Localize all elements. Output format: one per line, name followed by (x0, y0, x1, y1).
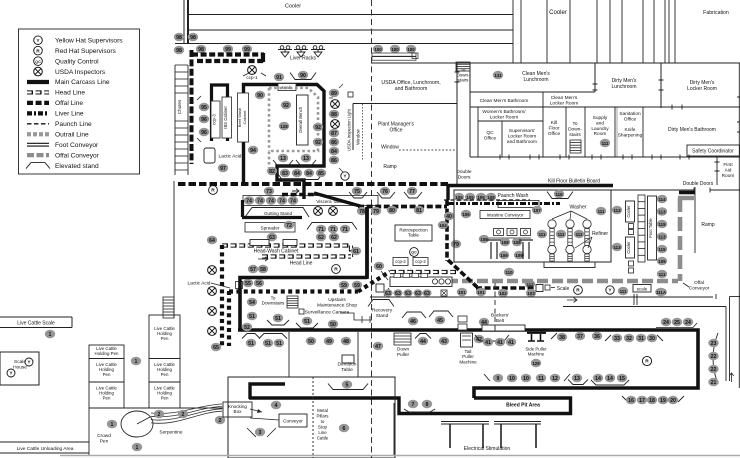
offal line long horizontal (178, 182, 450, 186)
svg-text:USDA Inspection Light: USDA Inspection Light (347, 108, 352, 151)
svg-text:Main Carcass Line: Main Carcass Line (55, 79, 110, 86)
svg-text:86: 86 (331, 140, 337, 146)
svg-text:Upstairs: Upstairs (328, 297, 346, 303)
svg-text:Office: Office (624, 116, 637, 122)
svg-text:111: 111 (576, 232, 583, 237)
circles 16-20 row (622, 396, 684, 402)
svg-text:61: 61 (353, 249, 359, 255)
svg-text:41: 41 (485, 340, 491, 346)
svg-text:Window: Window (356, 128, 361, 144)
svg-text:12: 12 (552, 376, 558, 382)
svg-text:65: 65 (213, 345, 219, 351)
svg-text:Ramp: Ramp (383, 164, 397, 170)
svg-text:71: 71 (318, 227, 324, 233)
svg-text:and Bathroom: and Bathroom (507, 139, 537, 145)
circles 57/58 (248, 265, 258, 274)
svg-text:Double Doors: Double Doors (683, 181, 714, 187)
main carcass line: upstairs room loop (240, 207, 367, 330)
svg-text:88: 88 (331, 112, 337, 118)
circles upstairs (247, 298, 257, 307)
circle 1 markers (131, 357, 141, 366)
svg-text:Down-: Down- (568, 126, 582, 132)
first aid room (716, 157, 718, 185)
svg-text:79: 79 (373, 209, 379, 215)
legend: quality control (34, 57, 43, 66)
svg-text:Cooler: Cooler (626, 241, 631, 254)
svg-text:Outrail Line: Outrail Line (55, 131, 89, 138)
svg-text:Liver Racks: Liver Racks (290, 56, 317, 62)
svg-text:Kill Floor Bulletin Board: Kill Floor Bulletin Board (548, 179, 600, 185)
svg-text:Cattle: Cattle (317, 436, 329, 441)
down puller (394, 333, 411, 345)
svg-text:Yellow Hat Supervisors: Yellow Hat Supervisors (55, 37, 123, 44)
kill floor room walls (454, 190, 611, 262)
svg-text:105: 105 (466, 195, 474, 200)
circles 100 and table top-center (373, 45, 383, 54)
svg-text:22: 22 (711, 367, 717, 373)
svg-text:Clean Men's Bathroom: Clean Men's Bathroom (480, 98, 529, 104)
svg-text:107: 107 (533, 208, 541, 213)
head wash cabinet boxes on line (250, 240, 269, 246)
main carcass line: ibs cabinet U-loop (212, 85, 228, 141)
circle 72 (284, 221, 294, 230)
svg-text:76: 76 (382, 189, 388, 195)
svg-text:Fabrication: Fabrication (703, 10, 729, 16)
svg-text:5: 5 (346, 382, 349, 388)
svg-text:74: 74 (279, 198, 285, 204)
serpentine chute curves (151, 404, 222, 414)
svg-text:Machine: Machine (528, 352, 545, 357)
circle 90 with stand (290, 73, 316, 80)
svg-text:89: 89 (331, 91, 337, 97)
svg-text:17: 17 (639, 398, 645, 404)
svg-text:Dirty Men's Bathroom: Dirty Men's Bathroom (668, 127, 716, 133)
conveyor ladder strip (638, 195, 645, 262)
svg-text:Paunch Wash: Paunch Wash (498, 193, 529, 199)
svg-text:Quality Control: Quality Control (55, 58, 99, 65)
svg-text:6: 6 (343, 426, 346, 432)
svg-text:Box: Box (234, 409, 243, 414)
svg-text:Live Cattle Scale: Live Cattle Scale (17, 321, 55, 327)
svg-text:Locker Room: Locker Room (687, 86, 717, 92)
svg-text:51: 51 (265, 341, 271, 347)
svg-text:Spreader: Spreader (261, 226, 280, 231)
circles 98 top-left (174, 33, 184, 42)
liver line horizontal y206 (358, 205, 447, 209)
viscera lower table (390, 277, 452, 287)
svg-text:44: 44 (420, 339, 426, 345)
svg-text:Clean Men's: Clean Men's (551, 95, 578, 101)
svg-text:131: 131 (494, 73, 502, 78)
svg-text:10: 10 (509, 376, 515, 382)
svg-text:Cooler: Cooler (285, 4, 301, 10)
T stands (487, 240, 501, 259)
svg-text:Stand: Stand (376, 313, 389, 319)
svg-text:Doors: Doors (458, 174, 471, 180)
svg-text:14: 14 (595, 376, 601, 382)
svg-text:59: 59 (341, 283, 347, 289)
svg-text:Office: Office (548, 131, 561, 137)
svg-text:110: 110 (505, 270, 513, 275)
svg-text:Ramp: Ramp (701, 222, 715, 228)
svg-text:Elevated stand: Elevated stand (55, 163, 99, 170)
svg-text:96: 96 (201, 130, 207, 136)
svg-text:113: 113 (658, 209, 666, 214)
svg-text:First: First (723, 162, 733, 168)
svg-text:55: 55 (245, 281, 251, 287)
legend: outrail line (27, 132, 49, 136)
circle 61 (351, 247, 361, 256)
svg-text:Recovery: Recovery (372, 308, 393, 314)
svg-text:23: 23 (711, 341, 717, 347)
svg-text:Stop: Stop (318, 425, 328, 430)
circles R Y scale row (574, 286, 583, 295)
svg-text:Electrical Stimulation: Electrical Stimulation (464, 446, 511, 452)
svg-text:64: 64 (209, 238, 215, 244)
svg-text:R: R (211, 188, 215, 194)
svg-text:Offal Line: Offal Line (55, 100, 83, 107)
legend: yellow hat supervisors (34, 36, 43, 45)
svg-text:9: 9 (497, 376, 500, 382)
svg-text:111: 111 (659, 272, 666, 277)
svg-text:49: 49 (326, 339, 332, 345)
svg-text:111: 111 (558, 232, 565, 237)
tiny circles under table (383, 289, 392, 297)
svg-text:1: 1 (49, 332, 52, 338)
svg-text:99: 99 (225, 47, 231, 53)
legend: paunch line (27, 123, 49, 125)
svg-text:2: 2 (158, 412, 161, 418)
svg-text:scale: scale (637, 286, 648, 291)
svg-text:90: 90 (257, 93, 263, 99)
svg-text:Sanitation: Sanitation (619, 111, 641, 117)
svg-text:Supervisors': Supervisors' (509, 128, 535, 134)
bottom gray line (60, 455, 740, 457)
svg-text:1: 1 (135, 359, 138, 365)
svg-text:92: 92 (315, 125, 321, 131)
svg-text:Gutting Stand: Gutting Stand (264, 211, 293, 216)
svg-text:87: 87 (331, 131, 337, 137)
svg-text:Safety Coordinator: Safety Coordinator (692, 149, 734, 155)
side puller machine (527, 332, 546, 334)
svg-text:33: 33 (614, 336, 620, 342)
svg-text:Table: Table (341, 367, 353, 373)
conveyor box (279, 414, 307, 427)
legend: offal line (27, 101, 49, 105)
svg-text:Scale: Scale (14, 359, 26, 365)
svg-text:40: 40 (446, 214, 452, 220)
svg-text:94: 94 (250, 148, 256, 154)
svg-text:84: 84 (294, 171, 300, 177)
serpentine crowd gate (121, 411, 153, 437)
svg-text:Belt: Belt (496, 318, 505, 324)
scale label small (545, 285, 550, 290)
circles 59/59 (339, 281, 349, 290)
svg-text:85: 85 (318, 171, 324, 177)
circles 2 (154, 410, 164, 419)
svg-text:43: 43 (441, 339, 447, 345)
circle 94 (248, 146, 258, 155)
foot table (648, 196, 657, 260)
svg-text:98: 98 (176, 35, 182, 41)
svg-text:Window: Window (381, 145, 399, 151)
thin wall right of kill floor (694, 187, 696, 253)
svg-text:97: 97 (220, 166, 226, 172)
circle 40 (444, 212, 454, 221)
circles 7/8 (404, 409, 435, 412)
circles 95/96/96 (199, 103, 209, 112)
circle 110 (504, 268, 514, 277)
svg-text:USDA Inspectors: USDA Inspectors (55, 69, 106, 76)
svg-text:36: 36 (594, 334, 600, 340)
svg-text:13: 13 (303, 156, 309, 162)
svg-text:QC: QC (411, 251, 417, 255)
svg-text:25: 25 (674, 320, 680, 326)
svg-text:Sharpening: Sharpening (618, 132, 643, 138)
svg-text:Head Line: Head Line (55, 90, 85, 97)
svg-text:R: R (645, 359, 649, 365)
svg-text:Lunchroom: Lunchroom (523, 77, 548, 83)
svg-text:Downstairs: Downstairs (262, 301, 285, 306)
svg-text:14: 14 (607, 376, 613, 382)
legend: elevated stand (26, 163, 50, 169)
svg-text:57: 57 (250, 267, 256, 273)
svg-text:96: 96 (201, 117, 207, 123)
circle R red hat (209, 186, 218, 195)
svg-text:18: 18 (649, 398, 655, 404)
svg-text:98: 98 (190, 35, 196, 41)
circles 21-23 column (713, 333, 718, 384)
svg-text:Offal Conveyor: Offal Conveyor (55, 152, 100, 159)
svg-text:109: 109 (500, 253, 508, 258)
svg-text:51: 51 (275, 316, 281, 322)
svg-text:Metal: Metal (317, 408, 328, 413)
circle 64 (207, 236, 217, 245)
live cattle scale (0, 316, 72, 318)
svg-text:Puller: Puller (397, 352, 410, 358)
svg-text:Pen: Pen (161, 336, 169, 341)
viscera table (243, 196, 378, 206)
tail puller machine (461, 333, 473, 347)
liver line vertical (445, 200, 449, 261)
svg-text:1: 1 (136, 445, 139, 451)
legend box (19, 29, 140, 174)
svg-text:Locker Room: Locker Room (550, 100, 579, 106)
svg-text:2: 2 (182, 412, 185, 418)
svg-text:ccp-1: ccp-1 (246, 75, 258, 80)
intestine conveyor (480, 211, 530, 219)
svg-text:116: 116 (555, 192, 563, 197)
svg-text:115: 115 (658, 222, 666, 227)
foot circles column (657, 195, 667, 204)
dentition table (342, 355, 354, 363)
svg-text:113: 113 (613, 208, 621, 213)
circles 82-85 row + stands (277, 173, 323, 180)
svg-text:Machine: Machine (459, 359, 477, 364)
stairs to downstairs (top) (456, 62, 470, 71)
svg-text:R: R (576, 288, 580, 294)
svg-text:Kill: Kill (551, 120, 557, 126)
gray 111 circles washer (537, 230, 547, 239)
svg-text:Double: Double (456, 169, 472, 175)
svg-text:38: 38 (559, 335, 565, 341)
svg-text:62: 62 (318, 235, 324, 241)
svg-text:108: 108 (480, 237, 488, 242)
svg-text:Bleed Pit Area: Bleed Pit Area (506, 403, 540, 409)
paunch wash (454, 193, 464, 202)
svg-text:Chutes: Chutes (177, 99, 182, 114)
offal line vertical left (190, 50, 194, 164)
svg-text:74: 74 (257, 198, 263, 204)
room labels lunchrooms (493, 71, 503, 80)
surveillance camera (299, 309, 304, 314)
circles 46/45 with stands (402, 312, 426, 318)
svg-text:47: 47 (375, 344, 381, 350)
svg-text:51: 51 (276, 341, 282, 347)
offal line diagonal+bottom (448, 260, 536, 288)
svg-text:8: 8 (426, 402, 429, 408)
USDA X column left (208, 266, 217, 275)
circles 5/6 (328, 384, 368, 390)
svg-text:84: 84 (306, 171, 312, 177)
svg-text:82: 82 (269, 169, 275, 175)
svg-text:24: 24 (663, 320, 669, 326)
svg-text:51: 51 (249, 314, 255, 320)
svg-text:QC: QC (35, 60, 41, 64)
circle 91 (274, 73, 284, 82)
svg-text:Backers': Backers' (491, 313, 509, 319)
walls lunchroom band (469, 63, 471, 157)
offal line top-left double run (192, 52, 264, 56)
svg-text:92: 92 (283, 103, 289, 109)
circle 65 (211, 343, 221, 352)
svg-text:113: 113 (613, 245, 621, 250)
scale house (0, 352, 39, 385)
svg-text:111: 111 (598, 209, 605, 214)
svg-text:To: To (572, 121, 577, 127)
inspection circle column right of bench (329, 89, 339, 98)
circle 90 left (255, 91, 265, 100)
svg-text:128: 128 (280, 124, 288, 129)
svg-text:Crowd: Crowd (97, 433, 111, 439)
circles 92/128/92/92 (281, 101, 291, 110)
svg-text:Refiner: Refiner (592, 231, 608, 237)
ccp-2 boxes (393, 258, 408, 266)
legend: foot conveyor (27, 142, 49, 144)
pens chute ladder (163, 297, 174, 318)
svg-text:Conveyor: Conveyor (283, 419, 303, 424)
circles 13/13 pair (273, 160, 293, 166)
svg-text:56: 56 (256, 281, 262, 287)
svg-text:63: 63 (395, 291, 401, 297)
svg-text:13: 13 (280, 156, 286, 162)
svg-text:58: 58 (260, 267, 266, 273)
wash stations (494, 229, 504, 236)
thin vertical from offal to pens (173, 181, 175, 318)
svg-text:R: R (36, 48, 40, 54)
svg-text:51: 51 (248, 341, 254, 347)
svg-text:20: 20 (670, 398, 676, 404)
svg-text:129: 129 (532, 361, 540, 366)
legend: red hat supervisors (34, 46, 43, 55)
svg-text:50: 50 (308, 339, 314, 345)
svg-text:108: 108 (501, 240, 509, 245)
electrical stimulation tables (441, 421, 489, 423)
holding pens column 2 (149, 315, 180, 408)
svg-text:IBS Cabinet: IBS Cabinet (223, 105, 228, 128)
svg-text:Aid: Aid (725, 167, 732, 173)
svg-text:111: 111 (620, 289, 627, 294)
svg-text:Lactic Acid: Lactic Acid (188, 281, 211, 287)
circle 60 (374, 262, 384, 271)
svg-text:Table: Table (408, 233, 419, 238)
svg-text:22: 22 (711, 354, 717, 360)
red hat lower (642, 356, 651, 365)
svg-text:63: 63 (269, 235, 275, 241)
svg-text:24: 24 (685, 320, 691, 326)
live cattle unloading area (0, 441, 89, 443)
outrail dotted loop around overall bench (269, 88, 318, 168)
svg-text:51: 51 (304, 319, 310, 325)
svg-text:73: 73 (266, 189, 272, 195)
svg-text:Office: Office (484, 135, 497, 141)
main carcass line: bleed pit area (250, 384, 285, 399)
svg-text:Laundry: Laundry (591, 126, 609, 132)
svg-text:48: 48 (343, 339, 349, 345)
svg-text:115: 115 (658, 247, 666, 252)
svg-text:ccp-2: ccp-2 (395, 259, 406, 264)
svg-text:111: 111 (539, 232, 546, 237)
svg-text:75: 75 (354, 189, 360, 195)
svg-text:74: 74 (246, 198, 252, 204)
svg-text:Locker Room: Locker Room (490, 114, 519, 120)
svg-text:99: 99 (244, 47, 250, 53)
svg-text:Pen: Pen (161, 372, 169, 377)
svg-text:Office: Office (390, 128, 403, 134)
kill floor top wall (solid thick) (448, 184, 613, 187)
svg-text:Women's Bathroom/: Women's Bathroom/ (482, 109, 526, 115)
svg-text:1: 1 (111, 422, 114, 428)
svg-text:78: 78 (359, 209, 365, 215)
holding pens column 1 (89, 345, 124, 408)
svg-text:Serpentine: Serpentine (159, 430, 183, 436)
thin lines below (370, 296, 713, 298)
cooler top-left walls (183, 0, 185, 43)
recovery stand (368, 300, 394, 307)
circle 79 (451, 240, 461, 249)
cooler cabinets vertical (626, 201, 635, 222)
svg-text:84: 84 (331, 149, 337, 155)
legend: main carcass line (27, 80, 49, 84)
lactic acid dispenser (204, 148, 215, 163)
svg-text:100: 100 (374, 47, 382, 52)
svg-text:stairs: stairs (569, 132, 581, 138)
svg-text:100: 100 (407, 47, 415, 52)
circles 38-30 row (551, 333, 557, 339)
circles 78/79/80/81 (357, 207, 367, 216)
svg-text:Pen: Pen (103, 396, 111, 401)
svg-text:Cooler: Cooler (626, 205, 631, 218)
svg-text:Maintenance Shop: Maintenance Shop (317, 302, 357, 308)
svg-text:114: 114 (658, 197, 666, 202)
svg-text:83: 83 (282, 171, 288, 177)
long-dash corridor line (371, 0, 373, 458)
svg-text:37: 37 (577, 334, 583, 340)
svg-text:House: House (13, 364, 27, 370)
svg-text:32: 32 (626, 336, 632, 342)
door square on corridor (376, 284, 384, 292)
svg-text:101: 101 (458, 290, 466, 295)
